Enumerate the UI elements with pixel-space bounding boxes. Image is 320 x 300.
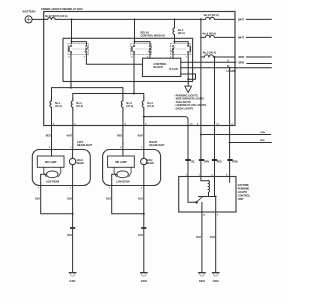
svg-text:CONTROL MODULE: CONTROL MODULE <box>141 34 166 38</box>
svg-text:(15 A): (15 A) <box>126 105 133 108</box>
fuse No.4 lower (15 A) <box>121 99 123 109</box>
svg-text:LOW BEAM: LOW BEAM <box>46 180 59 183</box>
wire color labels on DRL columns <box>191 161 238 163</box>
svg-text:G402: G402 <box>141 280 148 283</box>
node bus right tee <box>200 18 202 20</box>
wire main bus <box>57 18 201 20</box>
svg-text:WHT: WHT <box>238 18 244 22</box>
svg-text:BLK: BLK <box>138 198 143 200</box>
arrow to lights <box>185 86 192 92</box>
right headlight low beam housing <box>108 156 135 167</box>
svg-text:WHT: WHT <box>67 135 73 137</box>
wire relay C left to control block top <box>172 53 174 58</box>
svg-text:GRN: GRN <box>260 132 265 134</box>
svg-text:HID LAMP: HID LAMP <box>45 161 57 164</box>
DRL internals: contact <box>188 177 196 203</box>
wire relay B contact to control block top <box>149 53 151 58</box>
fuse No.2 (15 A) <box>71 99 73 109</box>
wire relay C right down to arrow <box>187 53 189 86</box>
relay control module box <box>63 38 193 81</box>
svg-text:LT GRN: LT GRN <box>227 70 236 73</box>
lights list <box>174 94 206 111</box>
wire control block output B <box>181 67 236 69</box>
pin labels at box bottom <box>53 122 234 125</box>
svg-text:BEAM: BEAM <box>146 162 153 165</box>
left headlight <box>32 150 90 186</box>
svg-text:BLK: BLK <box>210 237 215 239</box>
svg-text:HEADLIGHT: HEADLIGHT <box>77 143 93 147</box>
svg-text:G501: G501 <box>199 280 206 283</box>
DRL unit label <box>238 184 251 201</box>
relay B <box>131 41 152 55</box>
svg-text:BEAM: BEAM <box>77 162 84 165</box>
svg-text:ORN: ORN <box>232 161 237 163</box>
svg-text:RED: RED <box>46 135 51 137</box>
svg-text:YEL: YEL <box>191 161 196 163</box>
svg-text:BLK: BLK <box>106 198 111 200</box>
under-hood fuse/relay box <box>44 12 235 126</box>
svg-text:BATTERY: BATTERY <box>23 10 36 14</box>
wire DRL ground 2 <box>215 212 217 272</box>
svg-text:GRN: GRN <box>204 161 209 163</box>
svg-text:G401: G401 <box>70 280 77 283</box>
wire control block output 3 joining arrow wire <box>181 74 196 79</box>
svg-text:WHT: WHT <box>238 36 244 40</box>
wire relay A contact to control block <box>86 53 142 64</box>
fuse No.1 (15 A) <box>50 99 52 109</box>
wire inside to low beam right <box>122 150 124 157</box>
rail A <box>52 88 123 99</box>
relay C <box>170 41 191 55</box>
svg-text:No.22 (BAT) (120 A): No.22 (BAT) (120 A) <box>45 15 68 18</box>
wire battery to box <box>32 18 45 20</box>
right low beam bulb <box>114 167 131 176</box>
fuse branch 2 <box>201 35 235 37</box>
left headlight low beam housing <box>37 156 64 167</box>
svg-text:BLOCK: BLOCK <box>154 65 164 69</box>
wire control block output A <box>181 61 236 63</box>
inline connector bars on DRL columns <box>186 159 231 161</box>
wire relay A coil to rail A <box>70 53 72 87</box>
left high beam bulb <box>69 158 75 164</box>
wire right vertical bus <box>200 19 202 176</box>
ground G501 <box>199 272 205 274</box>
svg-text:UNIT: UNIT <box>238 198 244 201</box>
wire fuse2 to left headlight <box>72 109 74 149</box>
DRL internals: coil <box>201 177 209 181</box>
wire fuse3 to right headlight <box>143 109 145 149</box>
wire low beam to bottom pin <box>41 174 47 185</box>
battery <box>25 16 32 23</box>
svg-text:BLK: BLK <box>67 198 72 200</box>
ground G402 <box>141 272 147 274</box>
svg-text:BLK: BLK <box>67 235 72 237</box>
right headlight <box>103 150 161 186</box>
ground G601 <box>213 272 219 274</box>
wire from right edge joining col4 <box>230 142 272 144</box>
DRL top pin numbers <box>186 175 228 177</box>
wire left headlight grounds <box>41 186 73 214</box>
svg-text:(15 A): (15 A) <box>55 105 62 108</box>
connector bar left ground <box>71 227 74 229</box>
svg-text:(15 A): (15 A) <box>147 105 154 108</box>
wire low beam to bottom pin right <box>112 174 117 185</box>
svg-text:· DASH LIGHTS: · DASH LIGHTS <box>174 106 193 110</box>
wire col3 from RED branch to DRL <box>214 56 216 58</box>
svg-text:BRN: BRN <box>239 61 245 64</box>
wire col4 from LT GRN branch to DRL <box>229 67 231 69</box>
svg-text:UNDER–HOOD FUSE/RELAY BOX: UNDER–HOOD FUSE/RELAY BOX <box>41 7 83 11</box>
fuse branch 3 <box>201 55 235 57</box>
wire inside to low beam <box>51 150 53 157</box>
wire DRL ground 1 <box>201 212 203 272</box>
svg-text:No.21 (50 A): No.21 (50 A) <box>204 13 219 17</box>
svg-text:HEADLIGHT: HEADLIGHT <box>149 143 165 147</box>
wire right headlight grounds <box>112 186 144 214</box>
svg-text:(15 A): (15 A) <box>76 105 83 108</box>
ground G401 <box>69 272 75 274</box>
svg-text:HID LAMP: HID LAMP <box>115 161 127 164</box>
wire fuse4 to right headlight <box>122 109 124 149</box>
svg-text:WHT: WHT <box>138 135 144 137</box>
fuse No.3 (15 A) <box>142 99 144 109</box>
node bus-relayB feed <box>134 18 136 20</box>
rail B <box>73 94 144 100</box>
relay A <box>68 41 89 55</box>
node rail A relay coil junction <box>70 87 72 89</box>
left low beam bulb <box>44 167 61 176</box>
DRL bottom pin numbers <box>203 215 219 217</box>
daytime running lights control unit box <box>179 177 236 213</box>
svg-text:RED: RED <box>117 135 122 137</box>
svg-text:No.5 (40 A): No.5 (40 A) <box>203 51 217 55</box>
svg-text:RED: RED <box>217 161 222 163</box>
wire fuse1 to left headlight <box>51 109 53 149</box>
svg-text:BLK: BLK <box>138 235 143 237</box>
wire color labels on headlight feeds <box>46 135 144 137</box>
svg-text:No.9 (40 A): No.9 (40 A) <box>203 32 217 36</box>
wire relay B feed <box>134 19 136 43</box>
right high beam bulb <box>141 158 147 164</box>
node bus-relayA feed <box>71 18 73 20</box>
fuse No.22 (BAT) (120 A) <box>46 18 58 20</box>
wire relay B coil to rail B <box>133 53 135 93</box>
control block <box>143 58 181 76</box>
svg-text:RED: RED <box>239 55 245 59</box>
wire relay A feed <box>71 19 73 43</box>
svg-text:RED: RED <box>260 140 265 142</box>
fuse No.21 (50 A) branch 1 <box>201 17 235 19</box>
node bus-relayC feed <box>174 18 176 20</box>
svg-text:B-CAN: B-CAN <box>170 68 178 71</box>
connector bar right ground <box>142 227 145 229</box>
svg-text:BLK: BLK <box>35 198 40 200</box>
svg-text:(30 A): (30 A) <box>178 32 185 35</box>
wire fuse3 column tee to DRL col1 <box>143 116 145 118</box>
fuse No.4 (30 A) vertical on relay C feed <box>173 19 175 43</box>
svg-text:A: A <box>227 60 229 63</box>
svg-text:LOW BEAM: LOW BEAM <box>116 180 129 183</box>
svg-text:G601: G601 <box>213 280 220 283</box>
svg-text:BLK: BLK <box>196 237 201 239</box>
node rail B relay coil junction <box>133 93 135 95</box>
wire from right edge joining col2 <box>201 134 271 136</box>
